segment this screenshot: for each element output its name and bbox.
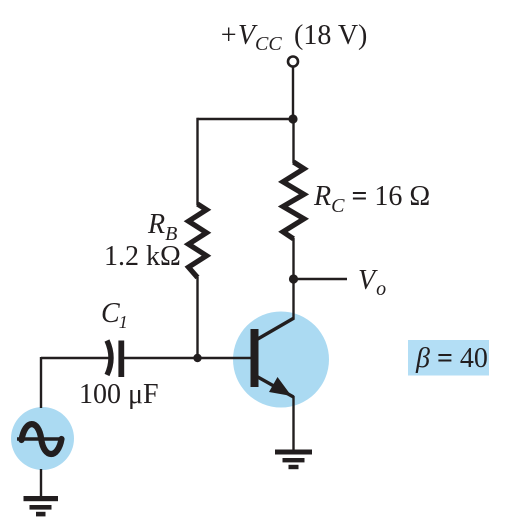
svg-text:RC = 16 Ω: RC = 16 Ω [313,181,430,217]
wire RB bottom lead [196,277,198,358]
svg-text:RB: RB [147,209,177,245]
wire Vo stub [294,278,348,280]
node Vo [289,274,298,283]
wire Vcc terminal down to top junction [292,67,294,119]
svg-text:100 μF: 100 μF [79,379,159,410]
svg-text:C1: C1 [101,298,128,332]
ground (emitter) [275,450,312,470]
node top junction [288,114,297,123]
wire RB top lead [196,118,198,205]
AC source sine symbol [17,424,64,454]
svg-text:β = 40: β = 40 [415,343,488,374]
ground (source) [24,496,59,516]
svg-text:Vo: Vo [358,265,386,300]
wire collector vertical [292,279,294,319]
Vcc terminal [288,57,298,67]
wire source to ground [40,469,42,496]
wire source to capacitor [41,357,111,359]
beta box [408,340,489,376]
transistor circle highlight [233,312,329,408]
capacitor C1 [107,341,121,378]
resistor RB [189,204,207,278]
wire emitter down [292,396,294,450]
wire top horizontal to RB branch [198,118,294,120]
svg-text:(18 V): (18 V) [294,20,367,51]
node base junction [193,354,201,362]
AC source circle highlight [11,407,74,470]
wire RC bottom lead to Vo node [292,238,294,279]
wire source vertical [40,357,42,408]
transistor Q1 [251,318,295,397]
wire base horizontal [122,357,252,359]
svg-text:+VCC: +VCC [219,20,282,55]
wire RC top lead [292,119,294,163]
resistor RC [283,162,304,239]
svg-text:1.2 kΩ: 1.2 kΩ [104,241,181,272]
